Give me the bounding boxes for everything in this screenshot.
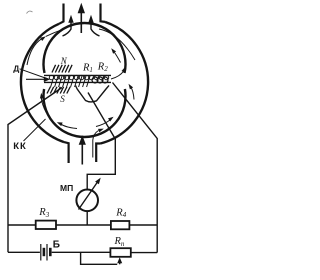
svg-text:S: S bbox=[60, 94, 65, 104]
svg-text:КК: КК bbox=[13, 141, 27, 152]
svg-text:N: N bbox=[60, 56, 68, 66]
svg-text:Б: Б bbox=[53, 239, 60, 250]
svg-text:Д: Д bbox=[13, 64, 19, 74]
svg-text:МП: МП bbox=[60, 183, 73, 193]
